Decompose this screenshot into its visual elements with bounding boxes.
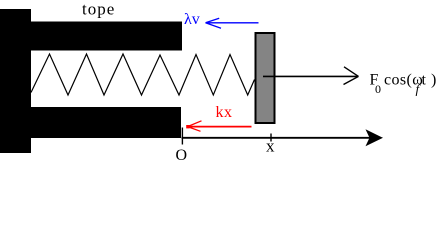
label kx: [216, 104, 233, 121]
svg-text:kx: kx: [216, 104, 233, 121]
damping arrow lambda-v: [206, 18, 259, 28]
force arrow F: [263, 67, 359, 85]
x tick: [270, 134, 272, 142]
svg-text:t: t: [422, 72, 427, 89]
x axis: [182, 129, 384, 146]
top stop bar: [31, 22, 182, 51]
svg-text:0: 0: [375, 82, 381, 96]
origin tick: [181, 128, 183, 145]
label x: [266, 136, 275, 155]
bottom stop bar: [31, 107, 181, 138]
wall: [0, 9, 31, 153]
label lambda-v: [184, 11, 200, 28]
svg-text:x: x: [266, 136, 275, 155]
spring k: [31, 54, 255, 95]
label F0cos(wf t): [370, 72, 437, 97]
svg-text:): ): [431, 72, 436, 89]
label tope: [82, 0, 115, 19]
svg-text:O: O: [176, 147, 188, 164]
label O: [176, 147, 188, 164]
svg-text:λv: λv: [184, 11, 200, 28]
svg-text:tope: tope: [82, 0, 115, 19]
mass block: [256, 33, 275, 123]
spring-force arrow kx: [186, 121, 251, 132]
